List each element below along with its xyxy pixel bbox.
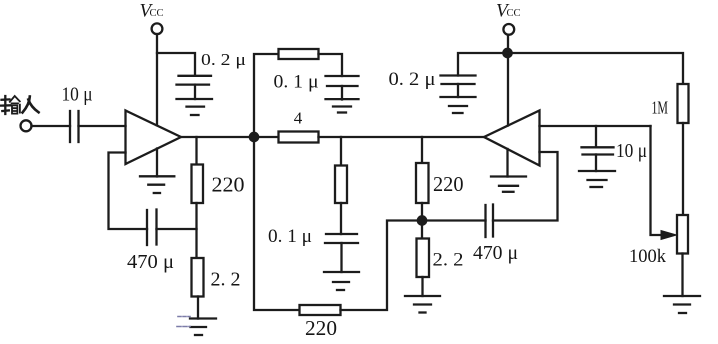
wire U2 to ground xyxy=(506,149,508,177)
Vcc terminal 1 xyxy=(152,23,163,34)
op-amp U2 xyxy=(484,111,540,166)
node junction 1 xyxy=(250,133,258,141)
label 输入 (input) xyxy=(1,96,39,114)
svg-text:10 μ: 10 μ xyxy=(62,84,93,106)
label Vcc 2 xyxy=(496,1,521,22)
svg-text:2. 2: 2. 2 xyxy=(433,251,464,271)
wire R7 to junction2 to R8 xyxy=(421,203,423,239)
wire R6 to C5 xyxy=(340,203,342,234)
wire C6 to U2 feedback xyxy=(493,152,558,221)
ground under C2 xyxy=(177,99,213,115)
wire U2 noninverting input line xyxy=(540,125,651,127)
svg-text:0. 1 μ: 0. 1 μ xyxy=(268,226,312,247)
resistor R4 4 (load) xyxy=(279,132,319,143)
op-amp U1 xyxy=(126,111,182,165)
wire to RP wiper xyxy=(651,126,663,235)
svg-text:2. 2: 2. 2 xyxy=(211,269,241,291)
ground under C7 xyxy=(441,97,476,113)
node junction 2 xyxy=(418,216,426,224)
resistor R3 (series with C4) xyxy=(279,49,319,59)
ground under U2 xyxy=(491,177,526,192)
capacitor C6 470μ xyxy=(486,205,494,238)
resistor R2 2.2 xyxy=(192,258,204,297)
capacitor C3 470μ xyxy=(147,210,157,246)
svg-text:0. 1 μ: 0. 1 μ xyxy=(274,73,319,93)
input terminal xyxy=(21,120,32,131)
node Vcc2 junction xyxy=(503,49,511,57)
capacitor C4 0.1μ xyxy=(326,76,359,100)
wire U1 to ground xyxy=(156,149,158,177)
capacitor C7 0.2μ xyxy=(441,76,476,98)
RP wiper arrow xyxy=(661,231,677,240)
ground under RP xyxy=(664,296,700,313)
resistor R5 220 bottom xyxy=(300,305,341,315)
svg-text:0. 2 μ: 0. 2 μ xyxy=(389,69,436,90)
wire junction1 down xyxy=(254,137,300,310)
wire branch B down from main xyxy=(421,137,423,163)
resistor R6 (series with C5) xyxy=(335,166,347,204)
svg-text:220: 220 xyxy=(212,173,245,197)
wire Vcc1 branch to C2 xyxy=(157,53,195,76)
ground under C4 xyxy=(326,99,359,112)
svg-text:470 μ: 470 μ xyxy=(473,242,518,264)
wire junction1 up to RC branch xyxy=(254,54,279,133)
wire U1 feedback stub xyxy=(109,153,148,230)
capacitor C2 0.2μ xyxy=(177,76,212,99)
wire Vcc2 down to U2 xyxy=(507,35,509,126)
wire down to C8 xyxy=(595,126,597,147)
resistor R1 220 xyxy=(192,165,204,204)
ground under C8 xyxy=(579,171,615,187)
Vcc terminal 2 xyxy=(503,24,514,35)
wire U1 output xyxy=(181,136,279,138)
wire R1 to node A to R2 xyxy=(195,203,197,258)
wire R8 to ground xyxy=(421,277,423,296)
svg-text:10 μ: 10 μ xyxy=(616,140,647,162)
resistor R9 1M xyxy=(678,84,689,123)
wire Vcc2 branch to C7 xyxy=(458,53,508,76)
wire R9 to RP xyxy=(682,123,684,215)
label Vcc 1 xyxy=(140,1,164,22)
wire output down to R1 xyxy=(195,137,197,165)
capacitor C8 10μ xyxy=(582,147,614,171)
ground under U1 xyxy=(140,176,174,193)
resistor R8 2.2 xyxy=(417,239,430,278)
wire R4 to U2 xyxy=(319,136,485,138)
wire branch A down from main xyxy=(340,137,342,166)
svg-text:220: 220 xyxy=(433,172,464,196)
wire R3 to C4 xyxy=(319,54,343,76)
wire junction2 to C6 xyxy=(422,219,486,221)
wire R2 to ground xyxy=(197,297,199,319)
potentiometer RP 100k xyxy=(677,215,688,254)
ground under R8 xyxy=(405,296,440,313)
wire R5 up to junction2 xyxy=(341,221,423,311)
wire C1 to U1 input xyxy=(79,125,126,127)
svg-text:0. 2 μ: 0. 2 μ xyxy=(201,50,246,69)
svg-text:220: 220 xyxy=(305,316,337,340)
svg-text:4: 4 xyxy=(294,108,303,127)
ground under R2 xyxy=(177,317,216,336)
resistor R7 220 xyxy=(416,163,429,203)
wire Vcc1 down to U1 xyxy=(156,34,158,125)
capacitor 10μ input coupling xyxy=(70,111,79,142)
svg-text:100k: 100k xyxy=(629,247,667,267)
wire RP to ground xyxy=(681,254,683,297)
svg-text:1M: 1M xyxy=(652,98,669,118)
wire input to C1 xyxy=(32,125,71,127)
wire Vcc2 branch right to R9 xyxy=(508,53,684,84)
wire C3 to node A xyxy=(157,228,197,230)
ground under C5 xyxy=(324,272,359,290)
svg-text:CC: CC xyxy=(507,8,521,19)
svg-text:470 μ: 470 μ xyxy=(127,251,174,273)
svg-text:CC: CC xyxy=(150,8,164,19)
capacitor C5 0.1μ xyxy=(325,234,358,272)
